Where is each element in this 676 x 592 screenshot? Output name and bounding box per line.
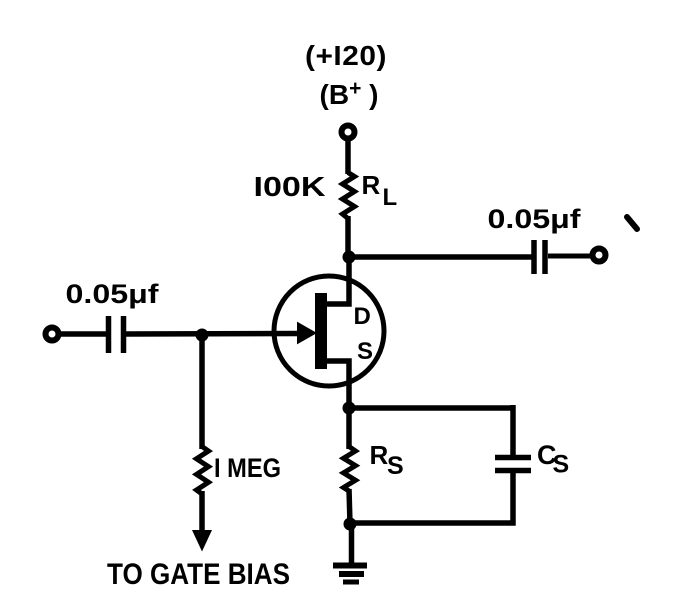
tick mark: [627, 217, 637, 229]
wire input to C1: [59, 331, 106, 337]
resistor RL: [343, 173, 355, 219]
JFET channel bar: [315, 293, 327, 369]
output terminal: [593, 249, 606, 262]
resistor RS: [344, 447, 356, 492]
label 0.05uf (output): [488, 204, 582, 234]
label (+120): [305, 40, 387, 71]
label TO GATE BIAS: [107, 558, 290, 591]
label 0.05uf (input): [66, 279, 160, 309]
wire C1 to gate (node B): [126, 331, 301, 337]
svg-text:R: R: [362, 170, 381, 200]
svg-text:TO GATE BIAS: TO GATE BIAS: [107, 558, 290, 591]
wire R2 to arrow: [199, 491, 205, 532]
capacitor C1 0.05uf: [109, 316, 124, 353]
svg-text:D: D: [354, 303, 371, 330]
JFET drain lead + wire from node A: [327, 259, 349, 304]
wire node D to ground: [349, 524, 355, 565]
label 100K: [254, 171, 326, 202]
wire C2 to output terminal: [548, 254, 592, 259]
capacitor C2 0.05uf: [534, 240, 545, 274]
wire CS bottom: [510, 471, 516, 526]
node D (ground junction): [344, 518, 357, 531]
label 1 MEG: [214, 453, 281, 483]
svg-text:I00K: I00K: [254, 171, 326, 202]
wire B+ to RL: [345, 139, 351, 174]
terminal B+: [342, 126, 355, 139]
svg-text:S: S: [387, 452, 404, 480]
JFET source lead: [327, 361, 349, 408]
svg-text:0.05μf: 0.05μf: [66, 279, 160, 309]
svg-text:0.05μf: 0.05μf: [488, 204, 582, 234]
input terminal: [46, 328, 59, 341]
ground: [333, 566, 367, 583]
wire node C to CS branch: [349, 405, 516, 411]
svg-text:R: R: [370, 440, 389, 470]
svg-text:(B+ ): (B+ ): [320, 77, 379, 110]
svg-text:I MEG: I MEG: [214, 453, 281, 483]
wire RS to node D: [349, 489, 350, 524]
label RL: [362, 170, 398, 211]
node A (drain junction): [343, 251, 356, 264]
svg-text:S: S: [357, 338, 373, 365]
wire node B to R2: [199, 338, 205, 449]
node C (source junction): [343, 402, 356, 415]
wire node A to C2: [349, 254, 532, 260]
pin label D: [354, 303, 371, 330]
label CS: [537, 440, 569, 479]
wire RL to node A: [345, 216, 351, 258]
label RS: [370, 440, 404, 480]
wire bottom rail: [350, 520, 516, 526]
transistor Q1 (JFET) body circle: [274, 276, 384, 386]
svg-text:(+I20): (+I20): [305, 40, 387, 71]
wire node C to RS: [346, 412, 352, 449]
pin label S: [357, 338, 373, 365]
resistor R2 (1 MEG): [197, 447, 209, 495]
svg-text:S: S: [553, 451, 570, 479]
node B (gate junction): [196, 329, 209, 342]
label (B+): [320, 77, 379, 110]
JFET gate arrow: [298, 323, 317, 344]
capacitor CS: [495, 458, 531, 471]
svg-text:L: L: [383, 184, 398, 211]
wire CS top: [510, 405, 516, 456]
arrow to gate bias: [192, 530, 212, 552]
